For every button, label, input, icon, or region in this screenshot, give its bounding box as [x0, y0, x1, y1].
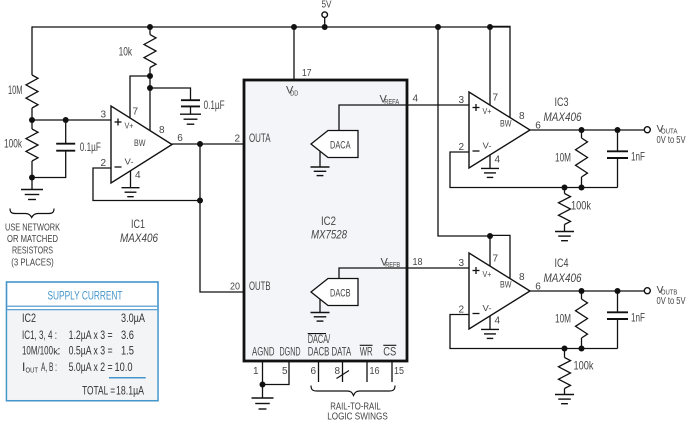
- resistor 10k (IC1 supply): [144, 27, 156, 68]
- wire junction to bypass capacitor: [150, 88, 191, 100]
- capacitor 1nF (IC3): [607, 130, 628, 188]
- CS label with overline: [383, 345, 396, 358]
- svg-text:USE NETWORK: USE NETWORK: [5, 222, 60, 234]
- bus slash: [337, 371, 350, 379]
- svg-text:8: 8: [335, 366, 341, 377]
- 10M value label (IC4): [555, 312, 571, 326]
- op-amp IC1 + input sign: [115, 119, 122, 126]
- IC4 label: [555, 256, 569, 270]
- wire 5V top supply rail: [32, 26, 510, 28]
- ground (IC4 100k): [555, 395, 574, 404]
- svg-text:17: 17: [302, 68, 312, 79]
- 10M value label: [8, 83, 23, 97]
- svg-text:1nF: 1nF: [631, 311, 645, 325]
- svg-text:10M: 10M: [555, 151, 571, 165]
- svg-text:AGND: AGND: [252, 347, 275, 359]
- op-amp IC4 pin 4 label: [495, 315, 501, 326]
- svg-text:16: 16: [370, 366, 380, 377]
- 5V label: [322, 0, 332, 11]
- table row IC1,3,4: [22, 328, 134, 342]
- op-amp IC1 BW label: [134, 138, 146, 149]
- svg-text:MAX406: MAX406: [544, 271, 582, 285]
- svg-text:RESISTORS: RESISTORS: [12, 245, 53, 257]
- svg-text:5V: 5V: [322, 0, 332, 11]
- svg-text:1nF: 1nF: [631, 150, 645, 164]
- op-amp IC4 V- label: [483, 303, 492, 313]
- DAC DACA symbol: [311, 131, 358, 158]
- svg-text:7: 7: [133, 107, 139, 118]
- svg-text:OUT: OUT: [26, 366, 39, 375]
- svg-text:0.5µA x 3 =: 0.5µA x 3 =: [69, 344, 113, 358]
- 5V supply terminal: [322, 12, 328, 18]
- svg-text:V+: V+: [483, 106, 492, 116]
- svg-text:2: 2: [100, 158, 106, 169]
- svg-text:20: 20: [230, 282, 240, 293]
- note USE NETWORK OR MATCHED RESISTORS (3 PLACES): [5, 222, 60, 269]
- WR label with overline: [360, 345, 373, 358]
- 10M value label (IC3): [555, 151, 571, 165]
- 0.1uF value label (divider): [80, 140, 101, 154]
- op-amp IC4 BW label: [500, 280, 512, 291]
- svg-text:18.1µA: 18.1µA: [116, 383, 144, 397]
- svg-text:V-: V-: [483, 303, 492, 313]
- svg-text:MX7528: MX7528: [311, 228, 347, 242]
- pin 15 label: [394, 366, 404, 377]
- wire capacitor to divider bottom: [32, 151, 66, 178]
- op-amp IC1 pin 4 wire: [130, 171, 132, 188]
- svg-text:IC2: IC2: [22, 311, 36, 325]
- svg-text:V+: V+: [483, 269, 492, 279]
- svg-text:100k: 100k: [571, 199, 592, 213]
- op-amp IC1 (MAX406) triangle: [111, 106, 172, 183]
- DACA/ label with overline: [308, 334, 331, 347]
- op-amp IC1 V+ label: [125, 120, 134, 130]
- svg-text:100k: 100k: [4, 137, 23, 151]
- table row TOTAL: [82, 383, 144, 397]
- svg-text:3: 3: [458, 258, 464, 269]
- table header SUPPLY CURRENT: [48, 289, 123, 303]
- ground (left divider): [21, 178, 43, 200]
- IC4 MAX406 label: [544, 271, 582, 285]
- svg-text:10M/100: 10M/100: [22, 344, 53, 358]
- capacitor 0.1uF (IC1 bypass): [181, 100, 200, 106]
- junction VDD on rail: [291, 24, 297, 30]
- op-amp IC3 BW label: [500, 119, 512, 130]
- note RAIL-TO-RAIL LOGIC SWINGS: [327, 400, 388, 422]
- table row 10M/100k: [22, 344, 134, 358]
- svg-text:4: 4: [495, 154, 501, 165]
- pin 17 label: [302, 68, 312, 79]
- DACB DATA label: [308, 347, 352, 359]
- op-amp IC3 (MAX406) triangle: [469, 92, 530, 168]
- junction AGND/DGND: [260, 382, 266, 388]
- IC3 MAX406 label: [544, 110, 582, 124]
- op-amp IC4 + input sign: [473, 267, 480, 274]
- ground (DACB): [311, 299, 330, 321]
- resistor 10M (IC4 feedback): [576, 291, 588, 349]
- svg-text:7: 7: [493, 93, 499, 104]
- junction 10M top (IC3): [579, 127, 585, 133]
- op-amp IC3 ground: [481, 168, 499, 177]
- pin 4 label: [413, 94, 419, 105]
- table row IC2: [22, 311, 145, 325]
- VREFB label: [381, 257, 401, 270]
- VDD label: [286, 85, 299, 98]
- op-amp IC4 pin 3 label: [458, 258, 464, 269]
- wire DGND pin 5: [263, 361, 290, 385]
- svg-text:BW: BW: [134, 138, 146, 149]
- DGND label: [280, 347, 301, 359]
- wire junction to IC1 pin 7: [130, 76, 150, 118]
- wire WR pin 16: [366, 361, 368, 382]
- svg-text:MAX406: MAX406: [120, 231, 158, 245]
- svg-text:IC4: IC4: [555, 256, 569, 270]
- op-amp IC3 V- label: [483, 141, 492, 151]
- svg-text:3: 3: [100, 109, 106, 120]
- svg-text:5: 5: [282, 366, 288, 377]
- svg-text:10M: 10M: [555, 312, 571, 326]
- junction 1nF top (IC4): [615, 288, 621, 294]
- wire IC1 output down to OUTB: [200, 144, 244, 292]
- MX7528 label: [311, 228, 347, 242]
- wire data pin 8 (bus): [342, 361, 344, 382]
- op-amp IC1 pin 6 label: [177, 133, 183, 144]
- op-amp IC4 - input sign: [473, 313, 480, 315]
- svg-text:CS: CS: [383, 347, 396, 359]
- op-amp IC3 pin 7 label: [493, 93, 499, 104]
- wire rail to IC3 pin 8: [490, 26, 510, 117]
- wire IC1 output to OUTA: [172, 143, 311, 145]
- 100k value label (IC3): [571, 199, 592, 213]
- OUTA label: [249, 133, 271, 145]
- svg-text:2: 2: [458, 142, 464, 153]
- svg-text:100k: 100k: [574, 359, 595, 373]
- node A junction (divider tap): [29, 117, 35, 123]
- wire IC1 pin 2 feedback: [93, 168, 200, 201]
- wire rail to IC3 pin 7: [489, 27, 491, 105]
- pin 1 label: [253, 366, 259, 377]
- svg-text:A, B :: A, B :: [41, 360, 57, 374]
- wire IC3 output: [530, 129, 644, 131]
- svg-text:8: 8: [519, 111, 525, 122]
- svg-text:0.1µF: 0.1µF: [80, 140, 101, 154]
- op-amp IC4 pin 2 label: [458, 304, 464, 315]
- junction 100k tap (IC3): [562, 185, 568, 191]
- resistor 100k (IC4 feedback): [559, 349, 571, 395]
- op-amp IC3 pin 4 label: [495, 154, 501, 165]
- op-amp IC3 + input sign: [473, 104, 480, 111]
- wire IC4 output: [530, 290, 644, 292]
- VOUTB terminal: [644, 288, 650, 294]
- op-amp IC3 - input sign: [473, 150, 480, 152]
- svg-text:IC1: IC1: [131, 217, 145, 231]
- IC1 label: [131, 217, 145, 231]
- wire rail to VDD pin 17: [293, 27, 295, 80]
- ground (IC3 100k): [555, 232, 574, 241]
- op-amp IC1 - input sign: [115, 166, 122, 168]
- svg-text:15: 15: [394, 366, 404, 377]
- svg-text:V-: V-: [483, 141, 492, 151]
- svg-text:TOTAL =: TOTAL =: [82, 383, 115, 397]
- pin 8 label: [335, 366, 341, 377]
- wire VREFA to IC3 pin 3: [339, 105, 469, 131]
- svg-text:SUPPLY CURRENT: SUPPLY CURRENT: [48, 289, 123, 303]
- IC1 MAX406 label: [120, 231, 158, 245]
- op-amp IC4 pin 7 label: [493, 254, 499, 265]
- wire IC3 pin 2 feedback: [450, 152, 618, 188]
- wire node A to IC1 pin 3: [32, 119, 111, 121]
- DAC DACB symbol: [311, 279, 358, 306]
- VOUTA label: [657, 123, 686, 146]
- svg-text:WR: WR: [360, 347, 373, 359]
- ground (AGND/DGND): [252, 385, 274, 410]
- table sum rule: [109, 377, 146, 379]
- IC2 MX7528 package outline: [244, 80, 407, 361]
- pin 20 label (OUTB): [230, 282, 240, 293]
- op-amp IC4 pin 6 label: [535, 282, 541, 293]
- wire CS pin 15: [391, 361, 393, 382]
- OUTB label: [249, 281, 271, 293]
- svg-text:4: 4: [413, 94, 419, 105]
- svg-text:BW: BW: [500, 119, 512, 130]
- brace for matched resistors note: [10, 209, 54, 218]
- svg-text::: :: [57, 344, 60, 358]
- resistor 100k (left divider): [26, 120, 38, 178]
- VREFA label: [380, 94, 400, 107]
- op-amp IC4 pin 8 label: [519, 272, 525, 283]
- wire AGND pin 1: [262, 361, 264, 385]
- svg-text:V+: V+: [125, 120, 134, 130]
- op-amp IC1 pin 4 label: [135, 170, 141, 181]
- pin 6 label: [311, 366, 317, 377]
- junction 10k bottom: [147, 73, 153, 79]
- svg-text:8: 8: [159, 125, 165, 136]
- 1nF value label (IC4): [631, 311, 645, 325]
- VOUTB label: [657, 284, 686, 307]
- op-amp IC4 (MAX406) triangle: [469, 253, 530, 329]
- junction 10k on rail: [147, 24, 153, 30]
- table row IOUT A,B: [22, 360, 133, 375]
- junction 10M bottom (IC3): [579, 185, 585, 191]
- svg-text:3.0µA: 3.0µA: [121, 311, 145, 325]
- svg-text:6: 6: [177, 133, 183, 144]
- svg-text:7: 7: [493, 254, 499, 265]
- op-amp IC4 ground: [481, 329, 499, 338]
- svg-text:4: 4: [135, 170, 141, 181]
- op-amp IC3 pin 4 wire: [489, 155, 491, 169]
- svg-text:1.5: 1.5: [121, 344, 134, 358]
- 10k value label: [119, 44, 133, 58]
- pin 2 label (OUTA): [234, 134, 240, 145]
- svg-text:0V to 5V: 0V to 5V: [657, 135, 686, 146]
- junction 1nF top (IC3): [615, 127, 621, 133]
- IC2 label: [321, 214, 336, 228]
- wire 5V terminal to rail: [324, 18, 326, 28]
- svg-text:DD: DD: [290, 88, 298, 97]
- svg-text:DGND: DGND: [280, 347, 301, 359]
- junction IC1 output: [197, 141, 203, 147]
- svg-text:DACA/: DACA/: [308, 334, 331, 346]
- IC3 label: [555, 95, 569, 109]
- wire rail down to IC4 supply: [438, 27, 490, 236]
- op-amp IC3 pin 2 label: [458, 142, 464, 153]
- op-amp IC4 V+ label: [483, 269, 492, 279]
- svg-text:V-: V-: [125, 157, 134, 167]
- brace rail-to-rail logic swings: [311, 386, 395, 396]
- svg-text:DACB: DACB: [330, 287, 351, 299]
- svg-text:1: 1: [253, 366, 259, 377]
- svg-text:5.0µA x 2 =: 5.0µA x 2 =: [69, 360, 113, 374]
- svg-text:(3 PLACES): (3 PLACES): [11, 257, 54, 269]
- svg-text:OR MATCHED: OR MATCHED: [7, 233, 58, 245]
- op-amp IC1 pin 8 label: [159, 125, 165, 136]
- svg-text:10k: 10k: [119, 44, 133, 58]
- supply current table box: [7, 282, 159, 401]
- 100k value label (IC4): [574, 359, 595, 373]
- wire data pin 6: [318, 361, 320, 382]
- svg-text:BW: BW: [500, 280, 512, 291]
- pin 5 label: [282, 366, 288, 377]
- VOUTA terminal: [644, 127, 650, 133]
- svg-text:2: 2: [458, 304, 464, 315]
- op-amp IC3 pin 3 label: [458, 95, 464, 106]
- svg-text:OUTA: OUTA: [249, 133, 271, 145]
- junction 10M bottom (IC4): [579, 346, 585, 352]
- svg-text:DACB DATA: DACB DATA: [308, 347, 352, 359]
- op-amp IC1 pin 7 label: [133, 107, 139, 118]
- ground (DACA): [311, 151, 330, 175]
- junction capacitor tap: [63, 117, 69, 123]
- 1nF value label (IC3): [631, 150, 645, 164]
- op-amp IC4 pin 4 wire: [489, 316, 491, 330]
- ground (bypass capacitor): [180, 106, 201, 124]
- junction IC4 pin 7 supply: [487, 233, 493, 239]
- junction 100k tap (IC4): [562, 346, 568, 352]
- svg-text:2: 2: [234, 134, 240, 145]
- svg-text:MAX406: MAX406: [544, 110, 582, 124]
- svg-text:1.2µA x 3 =: 1.2µA x 3 =: [69, 328, 113, 342]
- svg-text:3: 3: [458, 95, 464, 106]
- junction divider bottom: [29, 175, 35, 181]
- wire rail down to 10M resistor: [31, 26, 33, 75]
- svg-text:0V to 5V: 0V to 5V: [657, 296, 686, 307]
- table header double rule: [7, 306, 157, 310]
- wire 10M to node A: [31, 108, 33, 120]
- svg-text:DACA: DACA: [330, 139, 351, 151]
- op-amp IC1 pin 2 label: [100, 158, 106, 169]
- resistor 10M (left divider): [26, 75, 38, 108]
- wire to IC4 pin 8: [490, 235, 510, 278]
- svg-text:IC3: IC3: [555, 95, 569, 109]
- wire junction down to IC1 pin 8: [149, 76, 151, 131]
- junction IC3 supply on rail: [487, 24, 493, 30]
- svg-text:0.1µF: 0.1µF: [204, 98, 225, 112]
- svg-text:LOGIC SWINGS: LOGIC SWINGS: [327, 411, 388, 423]
- svg-text:OUTB: OUTB: [249, 281, 271, 293]
- svg-text:IC1, 3, 4 :: IC1, 3, 4 :: [22, 328, 57, 342]
- op-amp IC1 pin 3 label: [100, 109, 106, 120]
- op-amp IC1 ground: [122, 188, 140, 197]
- op-amp IC1 V- label: [125, 157, 134, 167]
- wire VREFB to IC4 pin 3: [339, 268, 469, 279]
- junction IC4 supply on rail: [435, 24, 441, 30]
- svg-text:6: 6: [311, 366, 317, 377]
- svg-text:IC2: IC2: [321, 214, 336, 228]
- 100k value label: [4, 137, 23, 151]
- svg-text:3.6: 3.6: [121, 328, 134, 342]
- AGND label: [252, 347, 275, 359]
- op-amp IC3 pin 8 label: [519, 111, 525, 122]
- resistor 100k (IC3 feedback): [559, 188, 571, 232]
- resistor 10M (IC3 feedback): [576, 130, 588, 188]
- svg-text:18: 18: [413, 257, 423, 268]
- wire to IC4 pin 7: [489, 236, 491, 266]
- capacitor 1nF (IC4): [607, 291, 628, 349]
- wire IC4 pin 2 feedback: [450, 315, 618, 349]
- op-amp IC3 pin 6 label: [535, 121, 541, 132]
- pin 18 label: [413, 257, 423, 268]
- op-amp IC3 V+ label: [483, 106, 492, 116]
- junction 5V on rail: [322, 24, 328, 30]
- 0.1uF value label (bypass): [204, 98, 225, 112]
- svg-text:10M: 10M: [8, 83, 23, 97]
- pin 16 label: [370, 366, 380, 377]
- junction bypass tap: [147, 85, 153, 91]
- junction 10M top (IC4): [579, 288, 585, 294]
- svg-text:4: 4: [495, 315, 501, 326]
- svg-text:10.0: 10.0: [115, 360, 133, 374]
- junction feedback node: [197, 198, 203, 204]
- capacitor 0.1uF (divider): [56, 120, 75, 151]
- wire 10k to junction: [149, 68, 151, 77]
- svg-text:8: 8: [519, 272, 525, 283]
